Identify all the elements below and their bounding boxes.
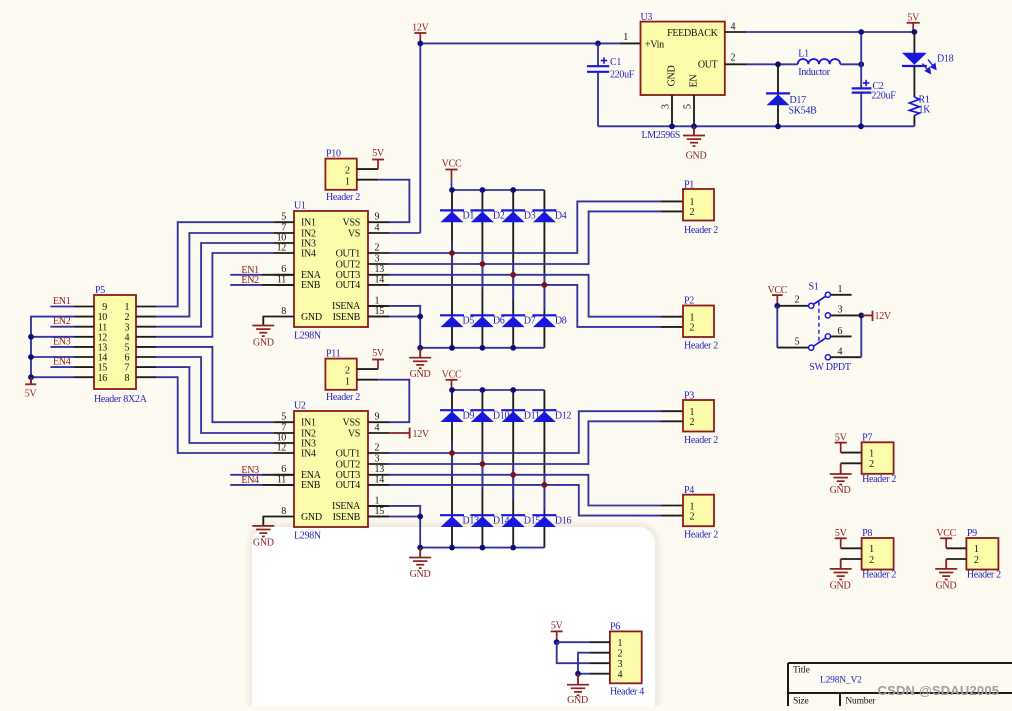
ground P8 [841,558,862,560]
pin 3 GND [671,95,673,126]
node D17 top [775,61,781,67]
svg-text:SK54B: SK54B [789,106,818,117]
node bus P5 pin12 [28,334,34,340]
svg-text:VSS: VSS [343,418,360,429]
wire diode column x452 [451,190,453,348]
svg-text:2: 2 [375,442,380,453]
svg-text:15: 15 [375,306,385,317]
svg-text:D1: D1 [463,211,475,222]
net label EN1 at P5 [50,306,74,308]
wire diode column x513 [512,190,514,348]
svg-text:5: 5 [281,412,286,423]
svg-text:8: 8 [281,506,286,517]
svg-text:5: 5 [281,212,286,223]
header P11 [325,359,356,390]
junction OUT1 D9 [449,450,455,456]
svg-text:15: 15 [375,506,385,517]
svg-text:P7: P7 [862,433,872,444]
node bus P5 pin14 [28,354,34,360]
svg-text:FEEDBACK: FEEDBACK [667,28,718,39]
svg-text:EN4: EN4 [53,357,71,368]
svg-text:5V: 5V [372,348,385,359]
svg-text:GND: GND [301,512,322,523]
svg-text:Header 2: Header 2 [684,435,718,446]
svg-text:3: 3 [375,453,380,464]
node top bus group2 [449,387,455,393]
svg-text:GND: GND [301,312,322,323]
svg-text:D3: D3 [524,211,536,222]
svg-text:Header 2: Header 2 [967,570,1001,581]
svg-text:P2: P2 [684,296,694,307]
svg-text:GND: GND [410,569,431,580]
power port 5V top right [907,12,920,32]
svg-text:Header 8X2A: Header 8X2A [94,394,148,405]
wire U2 OUT4 to P4 pin2 [389,485,661,516]
svg-text:2: 2 [690,511,695,522]
node FEEDBACK C2 [858,29,864,35]
svg-text:OUT1: OUT1 [336,448,361,459]
svg-text:2: 2 [690,323,695,334]
svg-text:1: 1 [869,448,874,459]
IC U2 L298N [294,411,368,527]
svg-text:OUT4: OUT4 [336,480,361,491]
svg-text:11: 11 [277,474,286,485]
wire P5 pin8 to U2 IN4 [156,377,274,453]
svg-text:220uF: 220uF [610,70,635,81]
svg-text:L298N_V2: L298N_V2 [820,676,862,686]
wire P6 pin4 [590,673,610,675]
svg-text:2: 2 [869,459,874,470]
wire P6 pin1 [557,641,590,643]
svg-text:4: 4 [375,222,380,233]
svg-text:+Vin: +Vin [645,40,664,51]
node P6 gnd junction [575,671,581,677]
wire P6 pin2 [590,652,610,654]
wire U1 OUT3 to P2 pin1 [389,275,661,317]
wire U2 OUT3 to P4 pin1 [389,475,661,506]
svg-text:P6: P6 [610,622,620,633]
svg-text:1: 1 [618,638,623,649]
svg-text:9: 9 [375,212,380,223]
svg-text:4: 4 [731,22,736,33]
diode D9 [440,410,464,422]
wire U1 OUT2 to P1 pin2 [389,211,661,264]
svg-text:ENB: ENB [301,280,321,291]
wire U1 OUT1 to P1 pin1 [389,201,661,253]
node rail C2 [858,123,864,129]
svg-text:2: 2 [869,555,874,566]
svg-text:5V: 5V [25,389,38,400]
svg-text:12: 12 [277,242,287,253]
junction OUT3 D11 [510,472,516,478]
svg-text:GND: GND [667,66,678,87]
ground P7 [841,462,862,464]
svg-text:Header 2: Header 2 [326,192,360,203]
pin 2 OUT [725,63,746,65]
wire ground rail [598,125,914,127]
wire U1 OUT4 to P2 pin2 [389,285,661,327]
svg-text:5V: 5V [907,12,920,23]
IC U1 L298N [294,211,368,327]
wire P5 pin5 to U2 IN1 [156,347,274,422]
svg-text:D8: D8 [555,316,567,327]
wire VCC top bus group2 [452,389,544,391]
svg-text:D6: D6 [493,316,505,327]
svg-text:GND: GND [567,695,588,706]
svg-text:VCC: VCC [442,370,462,381]
power port VCC at P9 [946,547,966,549]
svg-text:P4: P4 [684,485,694,496]
svg-text:Title: Title [793,666,810,676]
wire U1 ISENB [368,316,389,318]
header P1 [683,189,714,221]
wire U1 VS to 12V [389,232,420,234]
svg-text:Header 2: Header 2 [326,392,360,403]
P5 left pin stubs [74,306,94,308]
node C1 top [595,41,601,47]
svg-text:Number: Number [845,697,876,707]
svg-text:5V: 5V [835,528,848,539]
diode D14 [470,515,494,527]
diode D6 [470,315,494,327]
svg-text:VS: VS [348,228,360,239]
svg-text:EN4: EN4 [241,475,259,486]
power port 5V at P8 [841,547,862,549]
node 12V [417,41,423,47]
svg-text:Header 2: Header 2 [684,530,718,541]
diode D13 [440,515,464,527]
header P9 [966,538,998,570]
capacitor C2 [860,32,862,88]
diode D16 [532,515,556,527]
svg-text:P10: P10 [326,149,341,160]
svg-text:2: 2 [375,242,380,253]
svg-text:EN1: EN1 [53,296,71,307]
svg-text:ENB: ENB [301,480,321,491]
wire bottom bus group1 [420,347,544,349]
diode D17 SK54B [777,64,779,126]
power port 5V at P7 [841,452,862,454]
svg-text:IN4: IN4 [301,248,316,259]
svg-text:9: 9 [375,412,380,423]
net label EN4 at P5 [50,366,74,368]
power port VCC group2 [442,370,462,391]
diode D5 [440,315,464,327]
svg-text:14: 14 [375,474,385,485]
wire P6 pin3 [557,642,590,663]
wire diode column2 x544 [543,390,545,548]
junction OUT2 D10 [480,461,486,467]
diode D1 [440,210,464,222]
svg-text:EN3: EN3 [53,336,71,347]
svg-text:1: 1 [869,544,874,555]
header P7 [862,442,894,474]
capacitor C1 [597,43,599,66]
junction OUT4 D4 [542,282,548,288]
svg-text:OUT1: OUT1 [336,248,361,259]
svg-text:OUT2: OUT2 [336,459,361,470]
svg-text:U3: U3 [641,12,653,23]
net label EN1 at U1 [230,274,262,276]
node 5V [912,29,918,35]
svg-text:ISENA: ISENA [332,501,361,512]
power port VCC at S1 [767,285,787,306]
svg-text:3: 3 [837,305,842,316]
svg-text:D4: D4 [555,211,567,222]
wire U2 ISENB [368,516,389,518]
svg-text:IN1: IN1 [301,218,316,229]
node L1 C2 [858,61,864,67]
wire diode column2 x482 [481,390,483,548]
svg-text:L1: L1 [798,49,809,60]
ground U3 [693,126,695,135]
wire U1 ISENA [368,305,389,307]
power port 5V at P11 [357,368,378,370]
svg-text:P5: P5 [95,285,105,296]
svg-text:Header 2: Header 2 [862,570,896,581]
diode D3 [501,210,525,222]
node VCC S1 [774,303,780,309]
svg-text:4: 4 [375,422,380,433]
diode D10 [470,410,494,422]
wire P11 pin1 to U2 VSS [357,379,378,381]
svg-text:D12: D12 [555,410,572,421]
power port 5V at P10 [357,168,378,170]
pin 4 FEEDBACK [725,31,746,33]
svg-text:OUT: OUT [698,60,718,71]
power port VCC group1 [442,158,462,190]
junction OUT2 D2 [480,261,486,267]
power port 12V [412,23,429,44]
svg-text:5: 5 [683,104,694,109]
diode D7 [501,315,525,327]
wire P5 pin1 to U1 IN1 [156,222,274,306]
node ISENB junction [417,314,423,320]
ground P9 [946,558,966,560]
svg-text:4: 4 [618,670,623,681]
svg-text:L298N: L298N [294,531,321,542]
wire diode column x482 [481,190,483,348]
svg-text:IN4: IN4 [301,448,316,459]
svg-text:GND: GND [253,538,274,549]
svg-text:C1: C1 [610,57,621,68]
svg-text:Header 2: Header 2 [862,474,896,485]
node bus P5 pin16 [28,374,34,380]
U1 right pin stubs [368,221,389,223]
svg-text:5V: 5V [551,621,564,632]
svg-text:1: 1 [974,544,979,555]
LED D18 [913,32,915,53]
wire diode column x544 [543,190,545,348]
net label EN4 at U2 [230,484,262,486]
wire diode column2 x513 [512,390,514,548]
svg-text:12V: 12V [413,429,430,440]
header P2 [683,306,714,338]
wire 12V to U3 +Vin [420,42,598,44]
svg-text:U2: U2 [294,401,306,412]
svg-text:P9: P9 [967,528,977,539]
svg-text:GND: GND [410,369,431,380]
svg-text:GND: GND [686,151,707,162]
svg-text:2: 2 [795,295,800,306]
U2 right pin stubs [368,421,389,423]
svg-text:D18: D18 [937,54,954,65]
wire U2 OUT1 to P3 pin1 [389,411,661,453]
ground group1 [419,348,421,358]
resistor R1 1K [909,97,919,116]
svg-text:P1: P1 [684,180,694,191]
inductor L1 [798,59,841,64]
wire U2 ISENA [368,505,389,507]
wire FEEDBACK net [746,31,914,33]
svg-text:LM2596S: LM2596S [642,130,680,141]
header P6 Header 4 [610,631,642,683]
ground U2 pin8 [263,517,294,526]
svg-text:D5: D5 [463,316,475,327]
junction OUT4 D12 [542,482,548,488]
ground U1 pin8 [263,317,294,326]
P5 right pin stubs [136,306,156,308]
net label EN3 at P5 [50,346,74,348]
svg-text:CSDN @SDAU2005: CSDN @SDAU2005 [878,683,1000,698]
svg-text:GND: GND [936,580,957,591]
svg-text:1: 1 [375,295,380,306]
junction OUT1 D1 [449,250,455,256]
power port 5V below P5 [25,383,36,385]
wire P5 pin7 to U2 IN3 [156,367,274,443]
svg-text:D9: D9 [463,410,475,421]
svg-text:SW DPDT: SW DPDT [809,362,851,373]
node 5V P6 [554,639,560,645]
svg-text:2: 2 [345,166,350,177]
svg-text:ISENB: ISENB [333,512,361,523]
diode D12 [532,410,556,422]
svg-text:VCC: VCC [442,158,462,169]
wire 12V down to U1 VS [419,43,421,233]
U2 left pin stubs [274,421,294,423]
svg-text:D17: D17 [790,95,807,106]
svg-text:Header 4: Header 4 [610,687,644,698]
ground P6 [577,674,579,685]
svg-text:D7: D7 [524,316,536,327]
svg-text:1: 1 [837,284,842,295]
diode D15 [501,515,525,527]
pin 5 EN [693,95,695,126]
svg-text:GND: GND [253,338,274,349]
svg-text:OUT2: OUT2 [336,259,361,270]
svg-text:1: 1 [345,376,350,387]
svg-text:2: 2 [974,555,979,566]
svg-text:4: 4 [837,346,842,357]
svg-text:U1: U1 [294,201,306,212]
op IC U3 LM2596S [641,22,725,95]
wire VCC top bus group1 [452,189,544,191]
wire P5 pin6 to U2 IN2 [156,357,274,433]
power port 5V at P6 [551,621,564,643]
svg-text:8: 8 [281,306,286,317]
net label EN2 at P5 [50,326,74,328]
node top bus group1 [449,187,455,193]
svg-text:P11: P11 [326,349,341,360]
svg-text:VSS: VSS [343,218,360,229]
svg-text:EN2: EN2 [241,275,259,286]
svg-text:1: 1 [375,495,380,506]
svg-text:11: 11 [277,274,286,285]
wire P5 pin4 to U1 IN4 [156,253,274,337]
ground group2 [419,548,421,558]
svg-text:GND: GND [830,580,851,591]
net label EN2 at U1 [230,284,262,286]
svg-text:2: 2 [690,207,695,218]
header P10 [325,159,356,190]
wire 5V bus left of P5 [31,317,74,385]
svg-text:2: 2 [690,417,695,428]
svg-text:VS: VS [348,428,360,439]
svg-text:GND: GND [830,485,851,496]
wire diode column2 x452 [451,390,453,548]
diode D8 [532,315,556,327]
svg-text:5V: 5V [835,432,848,443]
svg-text:VCC: VCC [936,528,956,539]
svg-text:1: 1 [623,32,628,43]
svg-text:EN2: EN2 [53,316,71,327]
svg-text:6: 6 [837,326,842,337]
svg-text:EN: EN [689,75,700,88]
node rail EN pin [691,123,697,129]
svg-text:Header 2: Header 2 [684,225,718,236]
svg-text:P8: P8 [862,528,872,539]
svg-text:12: 12 [277,442,287,453]
wire P5 pin3 to U1 IN3 [156,243,274,327]
wire P5 pin2 to U1 IN2 [156,233,274,317]
svg-text:ISENB: ISENB [333,312,361,323]
svg-text:VCC: VCC [767,285,787,296]
net label EN3 at U2 [230,474,262,476]
junction OUT3 D3 [510,272,516,278]
svg-text:220uF: 220uF [871,91,896,102]
node rail GND pin [669,123,675,129]
svg-text:2: 2 [618,649,623,660]
title block [788,662,1012,664]
svg-text:ISENA: ISENA [332,301,361,312]
power port 12V at S1 [861,314,872,316]
diode D2 [470,210,494,222]
svg-text:12V: 12V [875,311,892,322]
svg-text:D2: D2 [493,211,505,222]
header P8 [862,538,894,570]
svg-text:Header 2: Header 2 [684,341,718,352]
svg-text:14: 14 [375,274,385,285]
wire bottom bus group2 [420,547,544,549]
node S1 12V [858,313,864,319]
svg-text:IN1: IN1 [301,418,316,429]
node rail D17 [775,123,781,129]
svg-text:Inductor: Inductor [798,67,830,78]
svg-text:3: 3 [375,253,380,264]
svg-text:OUT4: OUT4 [336,280,361,291]
svg-text:2: 2 [731,53,736,64]
svg-text:1: 1 [345,176,350,187]
header P5 Header 8X2A [94,295,136,389]
svg-text:16: 16 [98,373,108,384]
svg-text:S1: S1 [809,282,819,293]
svg-text:12V: 12V [412,23,429,34]
svg-text:5: 5 [795,337,800,348]
wire P10 pin1 to U1 VSS [357,179,378,181]
diode D11 [501,410,525,422]
power port 12V at U2 VS [389,432,410,434]
header P4 [683,495,714,527]
